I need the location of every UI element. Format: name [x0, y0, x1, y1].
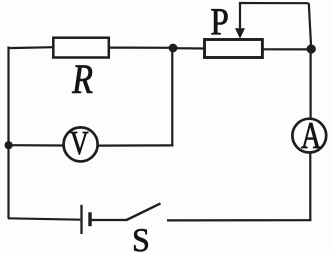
node J3 junction dot	[5, 141, 13, 149]
wire: wiper top horizontal	[239, 2, 309, 4]
wire: bottom right horizontal to switch	[167, 219, 311, 221]
wire: switch pivot to battery	[91, 219, 128, 221]
wire: node J1 to potentiometer	[172, 47, 204, 49]
resistor R	[53, 38, 109, 58]
label R	[72, 66, 92, 93]
ammeter A body	[292, 119, 326, 153]
wire: battery to bottom-left corner	[8, 218, 80, 219]
voltmeter V body	[64, 127, 98, 161]
label V (voltmeter)	[70, 132, 88, 155]
potentiometer P body	[205, 40, 263, 58]
potentiometer wiper arrowhead	[235, 28, 245, 38]
label P	[211, 9, 227, 34]
wire: ammeter to bottom-right corner	[309, 154, 311, 222]
wire: resistor to node J1	[110, 46, 172, 48]
wire: voltmeter to mid connector	[99, 144, 174, 146]
switch S lever (open)	[127, 203, 161, 220]
wire: node J3 to voltmeter	[9, 144, 64, 147]
label A (ammeter)	[301, 123, 321, 148]
wire: left vertical branch	[7, 47, 9, 219]
wire: mid connector up to node J1	[171, 48, 173, 146]
node J2 junction dot	[307, 44, 316, 53]
wire: node J2 down to ammeter	[310, 49, 312, 118]
potentiometer P wiper arrow stem	[239, 3, 241, 30]
wire: top-left horizontal to resistor	[8, 46, 54, 49]
battery long plate	[80, 205, 82, 234]
label S	[134, 229, 148, 251]
node J1 junction dot	[169, 44, 178, 53]
wire: wiper drop to node J2	[309, 3, 311, 45]
battery short plate	[88, 212, 91, 226]
wire: potentiometer to node J2	[264, 48, 312, 50]
